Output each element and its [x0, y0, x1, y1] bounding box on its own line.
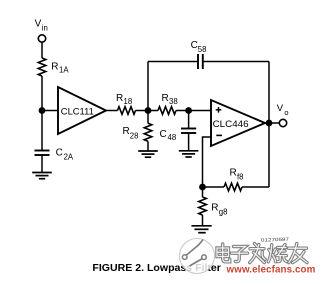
output terminal Vo: [279, 119, 286, 126]
svg-text:01270597: 01270597: [261, 237, 290, 243]
wire right vertical rail (C58 to output node to Rf8): [268, 62, 270, 188]
watermark logo node circles: [182, 255, 206, 260]
label C2A: [56, 148, 74, 162]
ground under C48: [179, 151, 199, 157]
svg-text:28: 28: [130, 132, 139, 141]
svg-text:R: R: [116, 93, 123, 104]
watermark chinese char you: [289, 244, 308, 263]
label minus input: [216, 134, 222, 136]
label plus input: [216, 107, 222, 113]
resistor R28: [144, 123, 152, 141]
watermark chinese char zi: [232, 247, 248, 262]
wire node C down to C48: [188, 111, 190, 129]
node A junction dot: [39, 107, 46, 114]
svg-text:38: 38: [169, 97, 178, 106]
node C junction dot: [185, 107, 192, 114]
wire op-amp output to terminal: [265, 122, 279, 124]
op-amp U2 CLC446: [211, 100, 265, 146]
wire R18 to node B: [136, 110, 159, 112]
svg-text:18: 18: [124, 97, 133, 106]
resistor Rf8: [224, 183, 242, 191]
svg-text:f8: f8: [237, 173, 244, 182]
svg-text:www.elecfans.com: www.elecfans.com: [226, 265, 316, 276]
resistor R1A: [38, 58, 46, 76]
watermark logo big circle: [180, 239, 215, 274]
watermark chinese char fa: [250, 244, 266, 263]
wire CLC111 output to R18: [106, 110, 118, 112]
ground under Rg8: [191, 226, 211, 233]
svg-text:in: in: [42, 23, 48, 32]
label Rf8: [230, 168, 244, 182]
wire node A to CLC111 input: [42, 110, 58, 112]
wire Vin to R1A: [41, 42, 43, 58]
svg-text:2A: 2A: [64, 153, 74, 162]
svg-text:C: C: [191, 40, 198, 51]
svg-text:C: C: [56, 148, 63, 159]
svg-text:R: R: [162, 93, 169, 104]
wire Rf8 to right rail: [242, 186, 269, 188]
wire Rg8 to ground: [202, 215, 204, 226]
svg-text:R: R: [230, 168, 237, 179]
wire node B up to C58 rail: [147, 62, 149, 111]
wire minus input to feedback node: [203, 137, 212, 187]
label R38: [162, 93, 178, 106]
svg-text:R: R: [123, 126, 130, 137]
wire C48 to ground: [188, 133, 190, 151]
wire C58 right segment: [203, 61, 269, 63]
resistor R38: [158, 107, 176, 115]
svg-text:48: 48: [168, 133, 177, 142]
ground under C2A: [32, 173, 52, 179]
svg-text:CLC111: CLC111: [61, 106, 94, 116]
label Rg8: [211, 202, 227, 216]
node Vin label: [35, 19, 48, 33]
svg-text:R: R: [51, 62, 58, 73]
wire C58 left segment: [148, 61, 198, 63]
svg-text:CLC446: CLC446: [213, 119, 249, 129]
svg-text:58: 58: [198, 45, 207, 54]
wire R1A to C2A (through node A): [41, 76, 43, 150]
svg-text:g8: g8: [219, 207, 228, 216]
svg-text:V: V: [35, 19, 42, 30]
wire node D to Rf8: [203, 186, 225, 188]
label R1A: [51, 62, 69, 75]
label C58: [191, 40, 207, 54]
wire node D to Rg8: [202, 187, 204, 197]
svg-text:R: R: [211, 202, 218, 213]
watermark chinese char shao: [268, 245, 287, 262]
node Vo label: [277, 103, 289, 117]
node B junction dot: [145, 107, 152, 114]
label C48: [160, 129, 177, 142]
wire node B to R28: [147, 111, 149, 124]
node D junction dot: [199, 184, 206, 191]
svg-text:V: V: [277, 103, 284, 114]
capacitor C2A: [35, 151, 50, 156]
op-amp buffer U1 CLC111: [58, 87, 106, 134]
ground under R28: [138, 151, 158, 157]
capacitor C48: [181, 129, 196, 134]
wire R38 to node C to op-amp + input: [176, 110, 211, 112]
svg-text:1A: 1A: [59, 66, 69, 75]
watermark chinese char dian: [217, 244, 230, 262]
svg-text:o: o: [284, 108, 288, 117]
resistor Rg8: [199, 197, 207, 215]
node output junction dot: [266, 120, 273, 127]
label R18: [116, 93, 132, 106]
resistor R18: [118, 107, 136, 115]
capacitor C58: [198, 54, 203, 69]
watermark logo trace: [187, 240, 204, 267]
label R28: [123, 126, 139, 140]
svg-text:C: C: [160, 129, 167, 140]
input terminal Vin: [38, 35, 45, 42]
wire R28 to ground: [147, 141, 149, 151]
wire C2A to ground: [41, 155, 43, 173]
